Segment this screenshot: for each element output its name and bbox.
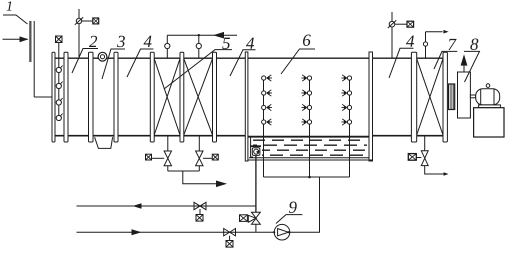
fan discharge arrow xyxy=(461,54,468,72)
pump U9 xyxy=(273,224,290,240)
right drain valve actuator xyxy=(408,154,421,161)
flange bar G xyxy=(213,52,217,142)
wire duct bottom line left xyxy=(52,135,245,137)
spray chamber left wall xyxy=(245,52,248,161)
three-way valve actuator xyxy=(240,215,248,222)
heater supply pipe xyxy=(165,32,237,58)
label 5 xyxy=(164,38,232,89)
valve on pipe P1 xyxy=(194,202,206,214)
sensor T1 actuator box xyxy=(93,18,99,24)
label 7 xyxy=(434,39,457,69)
damper D1 blades xyxy=(56,43,62,121)
spray standpipe 1 xyxy=(263,76,265,178)
sensor T1 xyxy=(75,9,93,58)
spray nozzles column 1 (facing right) xyxy=(262,75,272,125)
drain pipe P1 (to sewer) xyxy=(77,203,256,209)
heater drain stub 2 with valve xyxy=(196,136,203,172)
pressure probe with arrow xyxy=(423,30,448,58)
flange bar C xyxy=(89,52,94,142)
sensor T2 actuator box xyxy=(407,21,414,27)
motor M1 xyxy=(470,84,499,105)
label 4 third xyxy=(389,36,414,78)
motor base plate xyxy=(479,105,501,108)
label 6 xyxy=(281,35,315,74)
spray standpipe 2 xyxy=(309,76,311,178)
flange bar I (unit right wall) xyxy=(443,52,447,142)
valve P1 actuator xyxy=(196,215,203,222)
pedestal block xyxy=(474,108,504,137)
fresh water pipe P2 xyxy=(77,229,275,235)
heat exchanger coil X section 5b xyxy=(184,59,213,135)
heat exchanger coil X section 5a xyxy=(154,59,180,135)
flange bar F xyxy=(180,52,184,142)
basin water dashes xyxy=(253,140,367,155)
basin bottom xyxy=(248,158,373,160)
wire duct top line xyxy=(52,57,447,59)
damper actuator box xyxy=(56,36,63,43)
spray water manifold xyxy=(264,176,350,179)
basin inner left edge xyxy=(251,138,253,158)
heater drain valve 2 actuator xyxy=(203,154,218,160)
node intake-arrow xyxy=(3,36,29,42)
heat exchanger coil X section 7 xyxy=(417,59,443,135)
drain funnel under section 3 xyxy=(95,137,113,148)
basin rim xyxy=(248,136,369,138)
label 3 xyxy=(102,36,125,79)
valve P2 actuator xyxy=(226,241,233,248)
drain collector to sewer xyxy=(168,171,227,187)
label 9 xyxy=(276,202,302,224)
fan U1 housing xyxy=(458,72,471,118)
flange bar A (unit left wall) xyxy=(52,52,55,142)
label 8 xyxy=(464,38,480,82)
pump riser xyxy=(290,177,320,232)
flange bar B xyxy=(64,52,68,142)
heater drain stub 1 with valve xyxy=(164,136,171,172)
flange bar D xyxy=(114,52,118,142)
spray nozzles column 2 (facing left) xyxy=(302,75,312,125)
fan flexible connector xyxy=(449,84,455,110)
wire duct bottom line right xyxy=(373,135,448,137)
label 4 second xyxy=(230,38,256,76)
overflow pipe from float box xyxy=(255,156,257,213)
label 4 first xyxy=(127,36,153,77)
heater drain valve 1 actuator xyxy=(146,154,165,160)
flange bar H xyxy=(411,52,416,142)
spray standpipe 3 xyxy=(349,76,351,178)
louver grille xyxy=(29,21,52,97)
float valve box xyxy=(250,146,261,155)
spray nozzles column 3 (facing left) xyxy=(342,75,352,125)
valve on pipe P2 xyxy=(224,229,236,241)
right drain stub with valve xyxy=(421,136,448,176)
spray chamber right wall xyxy=(369,52,373,161)
flange bar E xyxy=(150,52,154,142)
label 2 xyxy=(72,36,98,73)
label 1 xyxy=(3,1,28,24)
motor-actuator circle on duct xyxy=(98,52,107,61)
sensor T2 xyxy=(388,12,407,58)
three-way valve xyxy=(248,212,260,232)
